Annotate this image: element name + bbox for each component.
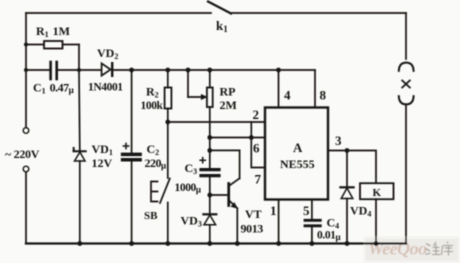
svg-text:3: 3 [335, 133, 342, 148]
svg-text:100k: 100k [141, 100, 164, 112]
node pin6 pin7 tie [249, 135, 254, 140]
wire pin7 [251, 138, 265, 168]
node pin6 at RP [207, 135, 212, 140]
zener diode VD1 [74, 70, 86, 244]
node K bottom [374, 241, 379, 246]
node pin3 VD4 [345, 148, 350, 153]
wire top rail left [26, 12, 211, 14]
svg-text:VT: VT [245, 207, 262, 221]
transistor VT 9013 [210, 150, 240, 243]
node pin1 bottom [276, 241, 281, 246]
watermark glyph wei [426, 242, 441, 255]
wire right side down [405, 104, 407, 243]
lamp socket X bottom arc [399, 96, 414, 104]
svg-text:RP: RP [220, 85, 236, 99]
node wiper top [186, 68, 191, 73]
lamp socket X top arc [399, 63, 414, 71]
wire pin2 to pin6 tie [250, 122, 252, 138]
wire top rail right [231, 12, 406, 14]
svg-text:SB: SB [144, 210, 158, 222]
svg-text:K: K [373, 187, 382, 199]
node collector at C3 line [207, 148, 212, 153]
wire left vertical [25, 13, 27, 128]
wire left lower vertical [25, 172, 27, 244]
svg-text:~ 220V: ~ 220V [5, 147, 40, 161]
wire pin5 [311, 200, 313, 220]
node C1 right [77, 68, 81, 72]
node SB bottom [165, 241, 170, 246]
node C4 bottom [310, 241, 315, 246]
node C2 bottom [129, 241, 134, 246]
pushbutton SB [151, 122, 170, 244]
node C2 top [129, 68, 134, 73]
lamp socket X cross [402, 81, 410, 88]
wire right drop to lamp [405, 13, 407, 59]
node base junction [207, 193, 212, 198]
svg-text:0.01μ: 0.01μ [317, 230, 341, 243]
svg-text:9013: 9013 [241, 222, 264, 236]
IC A NE555 box [265, 108, 328, 200]
svg-text:1N4001: 1N4001 [88, 82, 123, 94]
wire pin4 pin8 bridge [279, 69, 316, 71]
capacitor C4 [305, 220, 320, 243]
svg-text:1: 1 [270, 203, 277, 218]
relay K box [360, 183, 394, 243]
resistor R1 [26, 41, 79, 70]
potentiometer RP [207, 70, 213, 139]
svg-text:C10.47μ: C10.47μ [33, 81, 74, 96]
potentiometer RP wiper branch [188, 70, 207, 99]
svg-text:NE555: NE555 [280, 157, 315, 171]
diode VD4 [340, 151, 353, 244]
terminal upper circle [23, 128, 29, 134]
svg-text:12V: 12V [92, 156, 113, 170]
svg-text:A: A [293, 140, 303, 155]
wire collector branch [210, 149, 240, 151]
watermark glyph ku [442, 242, 454, 256]
diode VD3 [203, 195, 216, 244]
node VD3 bottom [207, 241, 212, 246]
capacitor C2 [123, 70, 141, 244]
node C1 left [24, 68, 28, 72]
svg-text:1000μ: 1000μ [175, 182, 201, 195]
node VD1 bottom [77, 241, 82, 246]
svg-text:5: 5 [303, 203, 310, 218]
diode VD2 [102, 63, 279, 76]
node R1 left [24, 43, 28, 47]
capacitor C1 [26, 62, 101, 79]
wire pin3 [328, 151, 376, 184]
switch k1 blade [208, 2, 231, 14]
wire pin8 [314, 70, 316, 108]
node supply at pin4 [276, 68, 281, 73]
wire pin4 [278, 70, 280, 108]
svg-text:4: 4 [284, 88, 291, 103]
node R2 top [165, 68, 170, 73]
wire bottom rail [26, 242, 406, 244]
node VD4 bottom [345, 241, 350, 246]
svg-text:2: 2 [253, 107, 260, 122]
svg-text:R11M: R11M [36, 24, 70, 39]
svg-text:7: 7 [255, 172, 262, 187]
node RP top [207, 68, 212, 73]
svg-text:8: 8 [320, 88, 327, 103]
terminal lower circle [23, 166, 29, 172]
wire pin2 [168, 121, 265, 123]
wire pin6 [210, 137, 265, 139]
node emitter bottom [235, 241, 240, 246]
resistor R2 [165, 70, 172, 122]
wire pin1 [278, 200, 280, 244]
capacitor C3 [200, 138, 219, 196]
svg-text:6: 6 [253, 141, 260, 156]
node R2 bottom pin2 junction [165, 120, 170, 125]
watermark panel [364, 237, 460, 263]
svg-text:2M: 2M [220, 98, 237, 112]
